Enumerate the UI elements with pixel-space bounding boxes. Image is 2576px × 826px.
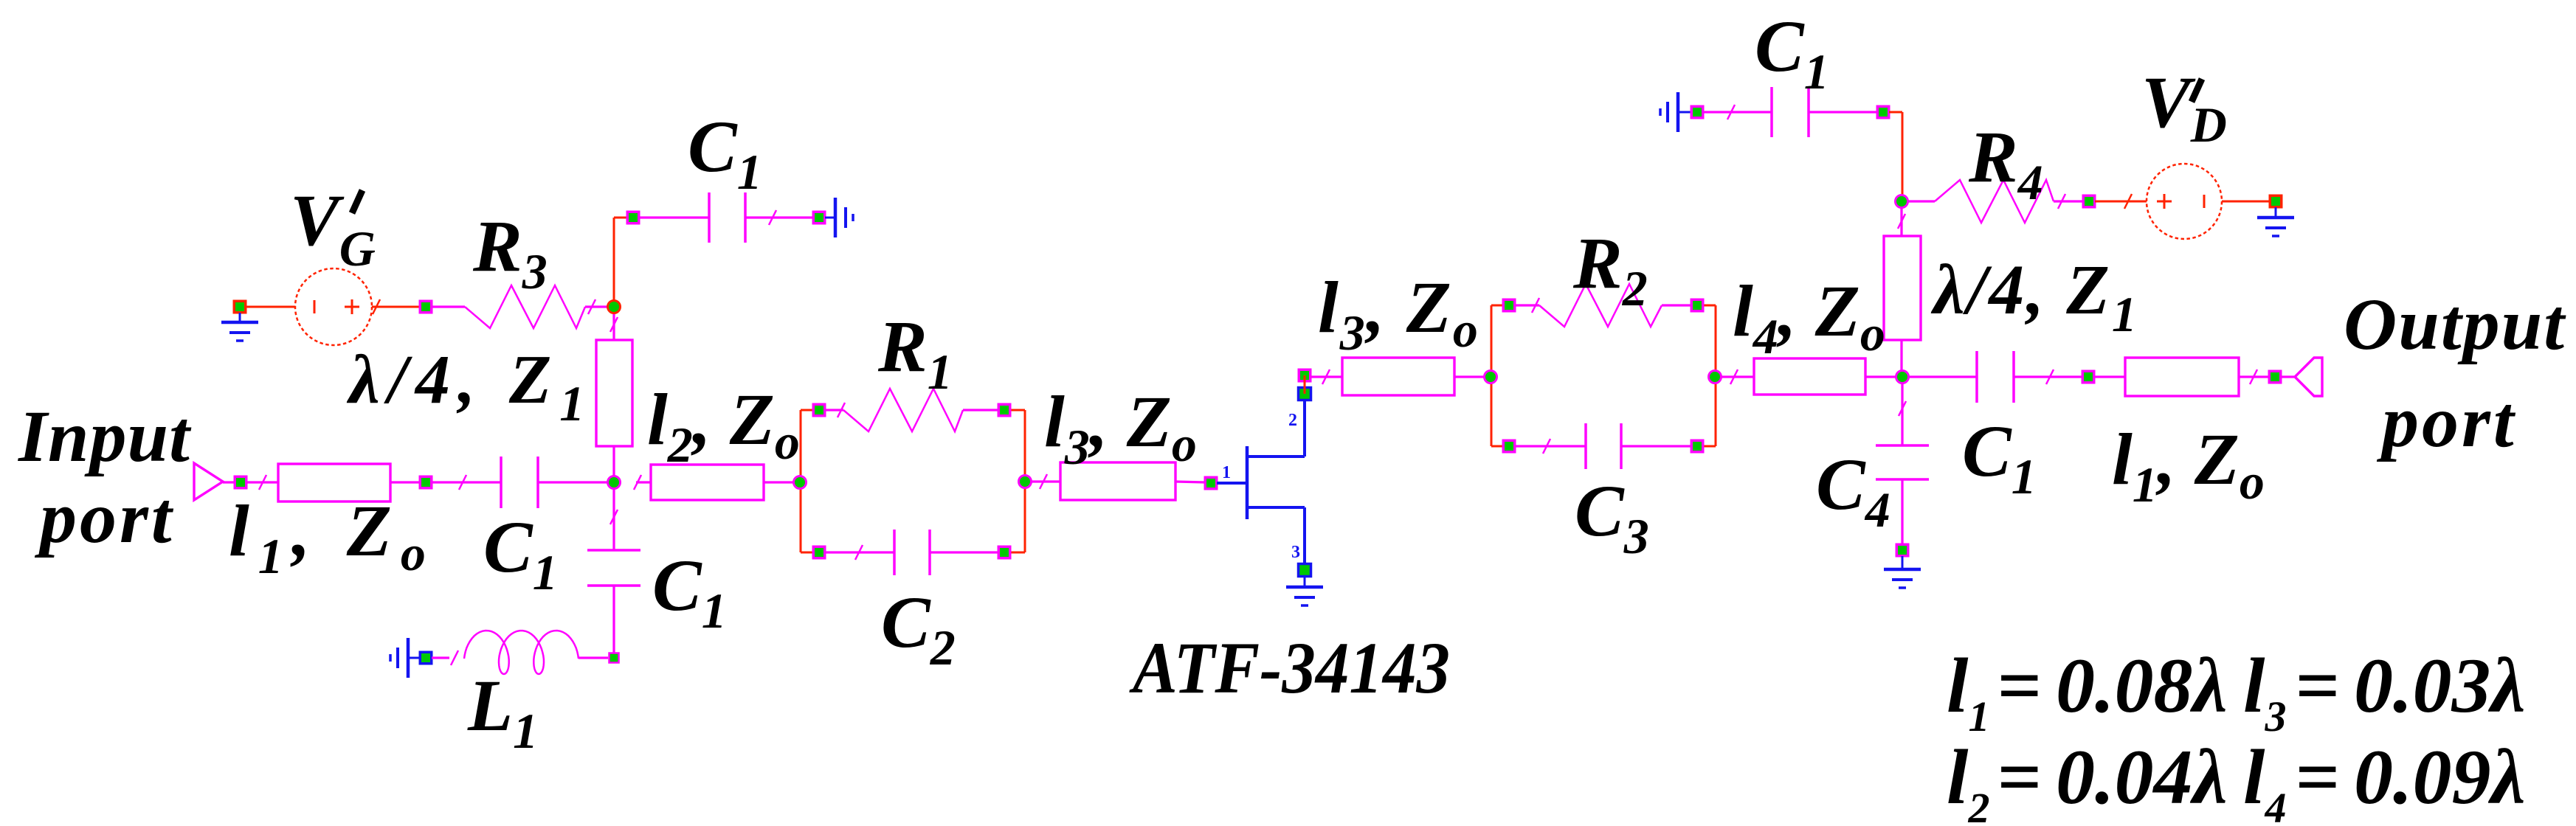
svg-text:0.09λ: 0.09λ — [2354, 734, 2526, 820]
svg-text:Output: Output — [2344, 283, 2566, 365]
svg-text:Input: Input — [18, 395, 192, 477]
svg-text:3: 3 — [1291, 543, 1300, 562]
svg-text:port: port — [2376, 381, 2517, 462]
svg-text:λ/4, Z1: λ/4, Z1 — [346, 341, 593, 431]
svg-text:ATF-34143: ATF-34143 — [1129, 627, 1450, 709]
svg-text:λ/4, Z1: λ/4, Z1 — [1930, 250, 2139, 342]
svg-text:=: = — [2295, 734, 2339, 820]
svg-text:=: = — [1997, 734, 2041, 820]
svg-text:0.03λ: 0.03λ — [2354, 642, 2526, 729]
svg-text:port: port — [34, 476, 175, 558]
svg-text:1: 1 — [1222, 463, 1231, 482]
svg-text:=: = — [1997, 642, 2041, 729]
svg-text:0.04λ: 0.04λ — [2056, 734, 2228, 820]
svg-text:2: 2 — [1288, 411, 1297, 430]
svg-text:0.08λ: 0.08λ — [2056, 642, 2228, 729]
svg-text:=: = — [2295, 642, 2339, 729]
